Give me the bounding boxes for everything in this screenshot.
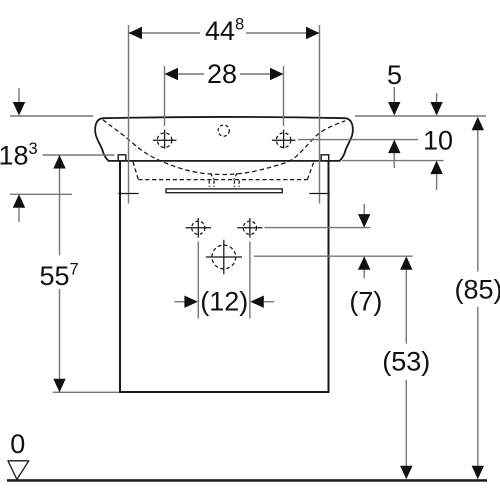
dim (85) down arrow	[472, 466, 484, 480]
dim 44.8 left extension line with wall cross	[128, 25, 130, 204]
svg-text:(12): (12)	[200, 287, 248, 317]
reference line basin top right segment	[355, 115, 486, 117]
dim 10 lower arrow stem	[436, 174, 438, 190]
left tap hole cross arms	[153, 130, 177, 149]
dim (85) vertical line upper segment	[477, 130, 479, 272]
svg-text:(53): (53)	[382, 347, 430, 377]
bowl bottom dashed outline left diagonal	[133, 162, 138, 180]
washbasin outer outline	[95, 117, 353, 161]
dim (53) down arrow	[400, 466, 412, 480]
cabinet left fixing hole dashed circle	[192, 221, 205, 234]
dim (7) lower arrow stem	[363, 270, 365, 279]
dim 10 up arrow	[430, 161, 442, 175]
drain funnel left dashed	[211, 173, 214, 179]
svg-text:5: 5	[387, 60, 402, 90]
dim (7) upper extension line	[265, 227, 371, 229]
dim 5 lower arrow stem	[393, 153, 395, 168]
drain funnel right dashed	[234, 173, 237, 179]
svg-text:(85): (85)	[454, 275, 500, 305]
dim 44.8 line segments	[129, 32, 320, 34]
left wall bracket square	[118, 155, 126, 161]
dim (7) down arrow	[358, 214, 370, 228]
dim (53) up arrow	[400, 256, 412, 270]
right wall cross arm	[309, 193, 329, 195]
dim 28 right arrow	[270, 68, 284, 80]
cabinet drain hole cross arms	[206, 240, 242, 274]
right wall bracket square	[321, 155, 329, 161]
dim 55.7 extension line top	[43, 154, 115, 156]
svg-text:0: 0	[10, 429, 25, 459]
dim (12) left extension line	[197, 242, 199, 319]
dim (85) vertical line lower segment	[477, 307, 479, 466]
ground line	[7, 479, 487, 482]
dim 55.7 up arrow	[53, 155, 65, 169]
dim 55.7 vertical line lower segment	[59, 289, 61, 392]
dim 28 left arrow	[165, 68, 179, 80]
cabinet drain hole dashed circle	[212, 245, 236, 269]
dim (12) right tail	[264, 301, 275, 303]
shelf bar below basin	[166, 189, 282, 193]
right tap hole dashed circle	[276, 133, 291, 148]
reference line tap hole level	[298, 139, 418, 141]
dim 10 down arrow	[430, 102, 442, 116]
svg-text:28: 28	[207, 59, 237, 89]
dim 55.7 down arrow	[53, 379, 65, 393]
drain pipe dashed walls	[209, 180, 239, 187]
dim 28 left extension line	[164, 66, 166, 126]
dim 5 upper arrow stem	[393, 87, 395, 103]
dim (12) right arrow	[250, 296, 263, 308]
dim (12) left tail	[175, 301, 185, 303]
overflow dashed circle (center of basin)	[218, 125, 229, 136]
cabinet left fixing hole cross arms	[186, 218, 211, 238]
dim (7) up arrow	[358, 256, 370, 270]
dim 18.3 up arrow	[13, 194, 25, 208]
dim 10 upper arrow stem	[436, 93, 438, 103]
reference line basin bottom right	[342, 160, 444, 162]
dim 44.8 right extension line with wall cross	[319, 25, 321, 204]
left wall cross arm	[118, 193, 138, 195]
dim 18.3 down arrow	[13, 102, 25, 116]
dim 5 up arrow	[388, 140, 400, 154]
cabinet body outline	[120, 161, 329, 392]
dim (7) upper arrow stem	[363, 204, 365, 214]
bowl bottom dashed outline horizontal	[138, 179, 307, 181]
dim 55.7 extension line bottom	[53, 391, 119, 393]
left tap hole dashed circle	[157, 133, 172, 148]
dim (12) right extension line	[249, 242, 251, 319]
dim 18.3 upper arrow stem	[18, 88, 20, 102]
svg-text:(7): (7)	[349, 287, 382, 317]
cabinet right fixing hole dashed circle	[243, 221, 256, 234]
dim (53) vertical line upper segment	[405, 270, 407, 344]
dim 5 down arrow	[388, 102, 400, 116]
reference line basin top left segment	[10, 115, 93, 117]
dim (12) left arrow	[184, 296, 198, 308]
bowl bottom dashed outline right diagonal	[307, 161, 314, 179]
right tap hole cross arms	[272, 130, 296, 149]
dim (85) up arrow	[472, 117, 484, 131]
cabinet right fixing hole cross arms	[237, 218, 262, 238]
dim (7) lower extension line	[254, 255, 413, 257]
dim 55.7 vertical line upper segment	[59, 155, 61, 255]
dim 18.3 lower arrow stem	[18, 208, 20, 222]
dim 18.3 lower extension line	[10, 193, 72, 195]
dim 28 right extension line	[283, 66, 285, 126]
datum triangle	[8, 461, 29, 480]
dim (53) vertical line lower segment	[405, 380, 407, 466]
dim 44.8 right arrow	[306, 27, 320, 39]
svg-text:10: 10	[423, 126, 453, 156]
bowl inner rim dashed sweep curve	[103, 120, 345, 175]
dim 44.8 left arrow	[129, 27, 143, 39]
dim 28 line segments	[165, 73, 284, 75]
